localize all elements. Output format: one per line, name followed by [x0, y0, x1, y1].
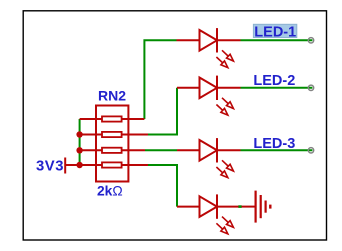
- wire resistor1 output to LED1: [144, 40, 176, 119]
- LED D3 anode lead: [177, 149, 200, 151]
- pin end LED-1: [308, 38, 313, 43]
- LED D4 cathode bar: [216, 194, 218, 218]
- svg-text:RN2: RN2: [98, 87, 126, 103]
- LED D2 triangle: [200, 78, 218, 99]
- pin end LED-2: [308, 85, 313, 90]
- power port 3V3 bar: [64, 158, 66, 174]
- resistor R2 body: [102, 132, 122, 137]
- ground bar 4: [269, 205, 271, 209]
- ground bar 1: [255, 191, 257, 223]
- resistor R3 left lead: [80, 149, 102, 151]
- LED D4 anode lead: [177, 206, 200, 208]
- wire LED3 cathode to pin: [241, 149, 313, 151]
- net label LED-1 highlight: [253, 24, 296, 37]
- power port 3V3 lead: [65, 164, 79, 166]
- LED D1 anode lead: [177, 39, 200, 41]
- wire LED1 cathode to pin: [241, 39, 313, 41]
- svg-text:2kΩ: 2kΩ: [97, 184, 123, 199]
- LED D1 cathode bar: [216, 28, 218, 52]
- LED D3 emission arrow 1: [222, 160, 233, 171]
- resistor R4 right lead: [122, 164, 148, 166]
- pin end LED-3: [308, 148, 313, 153]
- resistor R1 left lead: [80, 118, 102, 120]
- wire LED4 cathode to ground: [238, 205, 241, 208]
- LED D4 emission arrow 2: [216, 223, 227, 234]
- LED D1 emission arrow 1: [222, 50, 233, 61]
- resistor R1 right lead: [122, 118, 145, 120]
- svg-text:LED-2: LED-2: [253, 73, 295, 89]
- LED D2 emission arrow 1: [222, 98, 233, 109]
- LED D1 emission arrow 2: [216, 57, 227, 68]
- LED D4 cathode lead: [217, 206, 239, 208]
- resistor R3 right lead: [122, 149, 145, 151]
- wire 3V3 vertical bus: [79, 119, 81, 165]
- junction node row 2: [76, 131, 82, 137]
- resistor R4 body: [102, 162, 122, 167]
- resistor R3 body: [102, 148, 122, 153]
- ground lead: [242, 206, 256, 208]
- LED D2 anode lead: [177, 87, 200, 89]
- wire resistor3 output to LED3: [145, 149, 177, 151]
- LED D1 cathode lead: [217, 39, 241, 41]
- resistor R2 right lead: [122, 134, 148, 136]
- LED D2 emission arrow 2: [216, 105, 227, 116]
- ground bar 3: [265, 201, 267, 213]
- wire resistor4 output to LED4: [148, 165, 177, 207]
- junction node row 4: [76, 162, 82, 168]
- svg-text:LED-3: LED-3: [253, 136, 295, 152]
- resistor R4 left lead: [80, 164, 102, 166]
- svg-text:3V3: 3V3: [36, 158, 64, 174]
- wire resistor2 output to LED2: [148, 88, 177, 135]
- junction node row 3: [76, 147, 82, 153]
- LED D3 cathode bar: [216, 138, 218, 162]
- wire LED2 cathode to pin: [241, 87, 313, 89]
- resistor R1 body: [102, 116, 122, 121]
- resistor R2 left lead: [80, 134, 102, 136]
- LED D3 triangle: [200, 140, 218, 161]
- LED D2 cathode lead: [217, 87, 241, 89]
- LED D1 triangle: [200, 30, 218, 51]
- LED D3 cathode lead: [217, 149, 241, 151]
- resistor network RN2 box: [96, 106, 128, 182]
- LED D4 emission arrow 1: [222, 217, 233, 228]
- ground bar 2: [260, 195, 262, 218]
- LED D2 cathode bar: [216, 76, 218, 100]
- LED D3 emission arrow 2: [216, 167, 227, 178]
- LED D4 triangle: [200, 196, 218, 217]
- svg-text:LED-1: LED-1: [254, 24, 296, 40]
